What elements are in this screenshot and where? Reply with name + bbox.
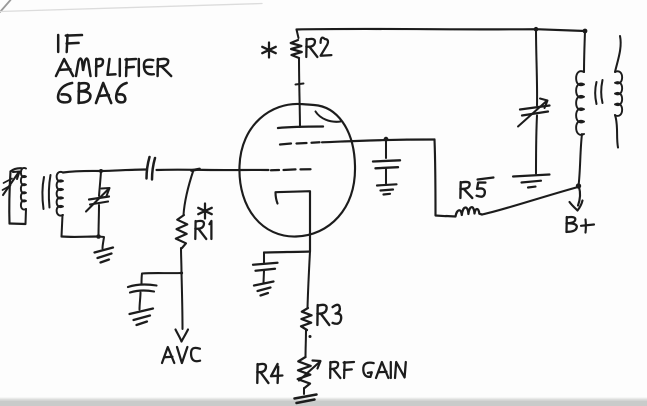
transformer T1 primary coil — [9, 172, 10, 224]
label RF GAIN — [329, 362, 331, 378]
node rail / variable-cap junction — [534, 27, 539, 32]
tube envelope pip notch — [316, 112, 341, 122]
label R4 — [256, 364, 259, 383]
tube plate — [278, 127, 323, 129]
wire T2 secondary bottom lead — [615, 115, 618, 148]
resistor R2 — [291, 40, 302, 58]
label R2 — [305, 39, 308, 57]
title IF — [57, 35, 59, 52]
wire screen grid out — [322, 140, 435, 143]
tube V1 envelope — [239, 104, 355, 237]
tube cathode — [276, 191, 311, 251]
ground AVC bypass — [130, 309, 154, 326]
variable arrow on T1 primary — [3, 172, 20, 196]
transformer T2 core coupling — [595, 82, 596, 104]
capacitor C-coupling (series) — [147, 157, 150, 179]
label R5 — [459, 182, 462, 198]
transformer T2 primary coil — [576, 71, 584, 135]
label R3 — [316, 305, 319, 325]
scan corner mark — [0, 0, 11, 12]
capacitor AVC bypass — [128, 285, 157, 293]
node T1 bottom junction — [96, 234, 101, 239]
resistor R5 — [446, 207, 482, 216]
resistor R3 — [301, 308, 312, 330]
ground cathode bypass — [254, 282, 274, 296]
resistor R1 — [176, 215, 188, 248]
wire cathode to R3 — [308, 252, 311, 309]
wire R1 junction down to AVC — [182, 273, 183, 329]
node B+ junction — [576, 183, 581, 188]
label B+ — [565, 217, 568, 232]
wire T1 secondary bottom — [62, 215, 63, 237]
node grid-wire / R1 junction — [192, 169, 200, 171]
title 6BA6 — [58, 83, 72, 102]
wire plate lead — [299, 58, 300, 127]
tube control grid (dashed) — [271, 169, 311, 170]
B+ arrow — [570, 187, 583, 211]
transformer T1 secondary coil — [57, 172, 63, 216]
title AMPLIFIER — [56, 59, 73, 76]
node T1 top junction — [99, 169, 103, 173]
wire T2 secondary top lead — [615, 36, 621, 72]
AVC arrow — [176, 330, 189, 342]
transformer T2 secondary coil — [615, 71, 622, 116]
capacitor screen bypass — [385, 139, 387, 158]
label AVC — [162, 347, 174, 363]
wire R3 to R4 — [304, 330, 307, 357]
wire rail corner down to T2 primary — [584, 31, 585, 72]
wire to AVC bypass capacitor — [142, 273, 182, 285]
transformer T1 core coupling — [42, 177, 44, 209]
node rail right corner — [583, 29, 588, 34]
wire cathode junction — [264, 252, 310, 253]
wire R4 to ground — [303, 388, 305, 394]
wire R1 to AVC arrow — [180, 248, 183, 273]
wire cap to ground — [140, 293, 141, 310]
potentiometer R4 — [298, 357, 311, 388]
wire coupling cap to grid — [157, 169, 269, 172]
trimmer capacitor across T1 secondary — [99, 171, 101, 196]
wire T1 secondary top to coupling capacitor — [63, 170, 146, 173]
ground variable capacitor — [513, 175, 550, 188]
wire screen to R5 — [435, 140, 447, 217]
wire B+ top rail — [297, 29, 586, 31]
asterisk by R1 — [198, 204, 212, 219]
tube screen grid (dashed) — [280, 142, 320, 144]
wire R5 to B+ node — [482, 187, 578, 215]
ground T1 secondary — [95, 248, 114, 263]
label R1 — [194, 221, 197, 239]
wire T2 primary bottom to B+ node — [579, 134, 583, 186]
wire junction to R1 — [184, 170, 194, 215]
asterisk by R2 — [262, 43, 276, 58]
ground R4 — [295, 395, 317, 404]
variable capacitor across T2 — [536, 29, 537, 105]
ground screen bypass — [377, 184, 397, 194]
capacitor cathode bypass — [263, 253, 265, 263]
node screen junction — [384, 137, 389, 142]
